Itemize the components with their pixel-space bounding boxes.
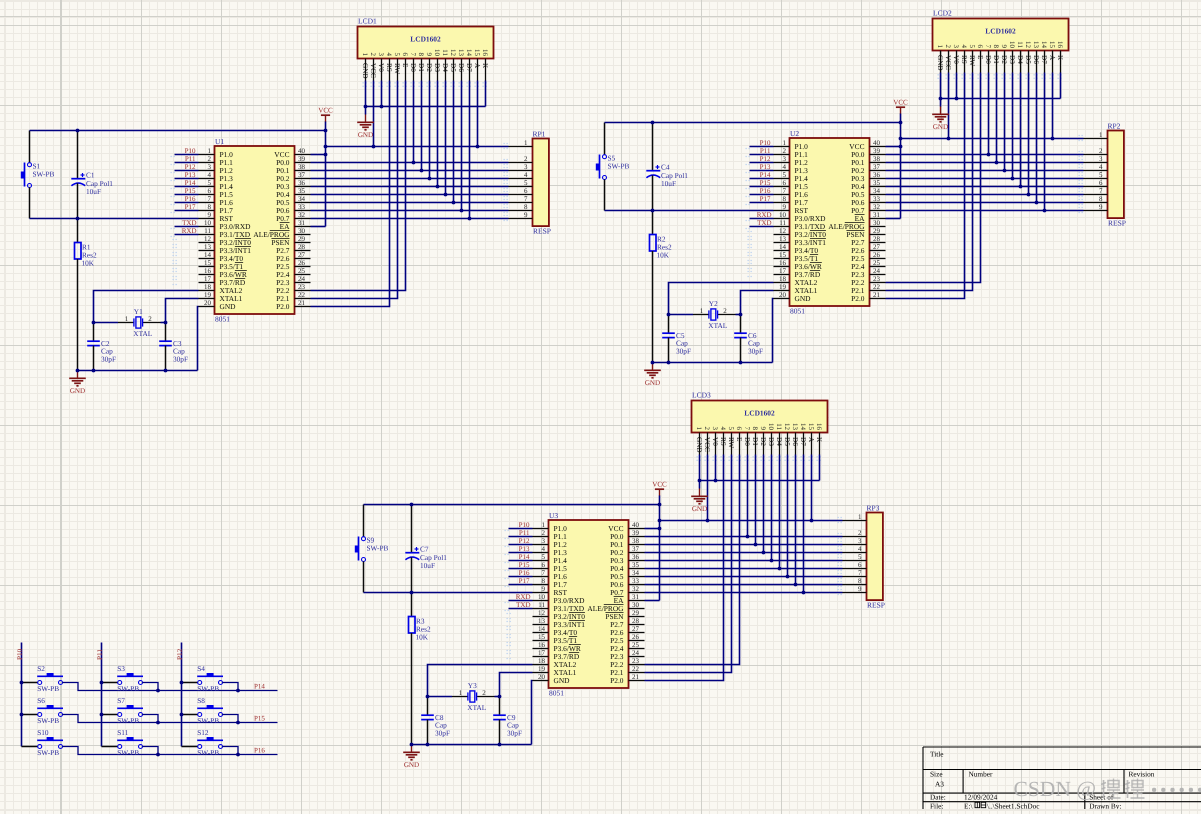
svg-text:12: 12 xyxy=(538,609,546,617)
svg-text:P13: P13 xyxy=(185,171,196,179)
svg-text:D4: D4 xyxy=(775,437,783,446)
wire net P17 xyxy=(750,202,774,204)
svg-text:18: 18 xyxy=(204,283,212,291)
svg-text:37: 37 xyxy=(632,545,640,553)
ground GND bottom xyxy=(403,745,420,769)
svg-text:15: 15 xyxy=(473,49,481,57)
svg-text:5: 5 xyxy=(968,45,976,49)
svg-text:14: 14 xyxy=(1040,41,1048,49)
wire net RXD xyxy=(509,608,533,610)
IC U1 8051 microcontroller xyxy=(199,137,311,323)
wire XTAL1 xyxy=(166,299,199,323)
svg-text:29: 29 xyxy=(873,227,881,235)
svg-text:8051: 8051 xyxy=(790,306,805,315)
svg-text:35: 35 xyxy=(873,179,881,187)
wire net P14 xyxy=(750,178,774,180)
svg-text:9: 9 xyxy=(208,211,212,219)
wire XTAL2 xyxy=(428,665,533,697)
wire LCD D0 xyxy=(413,81,415,163)
svg-text:2: 2 xyxy=(369,53,377,57)
svg-text:GND: GND xyxy=(70,387,85,395)
svg-text:25: 25 xyxy=(632,641,640,649)
net marker dots xyxy=(938,75,1064,79)
svg-text:10: 10 xyxy=(779,211,787,219)
svg-text:XTAL: XTAL xyxy=(467,703,486,712)
svg-text:V0: V0 xyxy=(711,437,719,446)
svg-text:30pF: 30pF xyxy=(173,354,188,363)
switch S4 SW-PB xyxy=(182,664,224,693)
svg-text:CSDN @: CSDN @ xyxy=(1014,777,1097,801)
svg-text:3: 3 xyxy=(524,163,528,171)
wire net RXD xyxy=(750,226,774,228)
svg-text:GND: GND xyxy=(645,379,660,387)
wire P0.5 bus xyxy=(645,576,843,578)
wire VCC vertical xyxy=(659,496,661,601)
wire LCD D3 xyxy=(771,455,773,561)
svg-text:11: 11 xyxy=(441,49,449,56)
svg-text:SW-PB: SW-PB xyxy=(37,716,59,725)
wire LCD D4 xyxy=(779,455,781,569)
svg-text:GND: GND xyxy=(220,302,237,311)
svg-text:20: 20 xyxy=(204,299,212,307)
svg-text:5: 5 xyxy=(208,179,212,187)
svg-text:9: 9 xyxy=(1000,45,1008,49)
svg-text:9: 9 xyxy=(524,211,528,219)
svg-text:19: 19 xyxy=(204,291,212,299)
svg-text:P10: P10 xyxy=(16,648,24,660)
wire LCD D4 xyxy=(1020,73,1022,187)
svg-text:D2: D2 xyxy=(1000,55,1008,64)
switch S5 SW-PB xyxy=(596,123,630,211)
wire net P11 xyxy=(750,154,774,156)
wire LCD D6 xyxy=(1036,73,1038,203)
svg-text:26: 26 xyxy=(632,633,640,641)
LCD module LCD2 LCD1602 xyxy=(933,9,1069,73)
svg-text:8: 8 xyxy=(542,577,546,585)
wire LCD pin3 V0 xyxy=(956,73,958,99)
svg-text:SW-PB: SW-PB xyxy=(37,748,59,757)
svg-text:38: 38 xyxy=(632,537,640,545)
resistor pack RP2 RESP xyxy=(1079,121,1126,227)
svg-text:13: 13 xyxy=(779,235,787,243)
wire switch output xyxy=(222,683,238,691)
svg-text:5: 5 xyxy=(524,179,528,187)
wire switch output xyxy=(62,715,277,723)
wire net P16 xyxy=(509,576,533,578)
svg-text:33: 33 xyxy=(298,203,306,211)
svg-text:P14: P14 xyxy=(185,179,196,187)
svg-text:8: 8 xyxy=(524,203,528,211)
svg-text:33: 33 xyxy=(873,195,881,203)
wire column P12 xyxy=(181,643,183,747)
svg-text:D4: D4 xyxy=(441,63,449,72)
svg-text:RP3: RP3 xyxy=(867,503,880,512)
svg-text:1: 1 xyxy=(208,147,212,155)
wire net TXD xyxy=(750,218,774,220)
wire LCD D7 xyxy=(469,81,471,219)
svg-text:37: 37 xyxy=(873,163,881,171)
wire net TXD xyxy=(175,226,199,228)
svg-text:13: 13 xyxy=(791,423,799,431)
svg-text:7: 7 xyxy=(858,569,862,577)
svg-text:35: 35 xyxy=(298,187,306,195)
svg-text:28: 28 xyxy=(298,243,306,251)
svg-text:V0: V0 xyxy=(952,55,960,64)
svg-text:S2: S2 xyxy=(37,664,45,673)
svg-text:24: 24 xyxy=(298,275,306,283)
svg-text:P16: P16 xyxy=(760,187,771,195)
wire pin40 VCC xyxy=(311,154,326,156)
wire crystal left xyxy=(669,314,694,316)
svg-text:1: 1 xyxy=(459,689,463,697)
svg-text:27: 27 xyxy=(298,251,306,259)
svg-text:28: 28 xyxy=(873,235,881,243)
svg-text:2: 2 xyxy=(944,45,952,49)
svg-text:RESP: RESP xyxy=(1108,219,1126,228)
wire crystal right xyxy=(161,322,166,324)
svg-text:S10: S10 xyxy=(37,728,49,737)
svg-text:26: 26 xyxy=(873,251,881,259)
resistor pack RP1 RESP xyxy=(504,129,551,235)
svg-text:15: 15 xyxy=(779,251,787,259)
wire net P11 xyxy=(175,162,199,164)
wire switch output xyxy=(62,683,277,691)
switch S1 SW-PB xyxy=(21,131,55,219)
svg-text:4: 4 xyxy=(1099,163,1103,171)
svg-text:RESP: RESP xyxy=(867,601,885,610)
svg-text:Revision: Revision xyxy=(1129,770,1155,779)
switch S10 SW-PB xyxy=(22,728,64,757)
junction dots xyxy=(410,479,814,747)
svg-text:V0: V0 xyxy=(377,63,385,72)
svg-text:15: 15 xyxy=(807,423,815,431)
wire LCD pin4 RS to P2.0 xyxy=(645,455,724,681)
crystal Y3 XTAL xyxy=(452,681,495,712)
svg-text:P14: P14 xyxy=(254,682,265,690)
svg-text:22: 22 xyxy=(632,665,640,673)
wire net P13 xyxy=(175,178,199,180)
wire net P13 xyxy=(750,170,774,172)
wire switch output xyxy=(62,747,277,755)
svg-text:30: 30 xyxy=(632,601,640,609)
svg-text:RESP: RESP xyxy=(533,227,551,236)
svg-text:5: 5 xyxy=(393,53,401,57)
ground GND under LCD xyxy=(691,481,708,513)
wire LCD D0 xyxy=(747,455,749,537)
svg-text:1: 1 xyxy=(125,315,129,323)
wire net P10 xyxy=(509,528,533,530)
svg-text:1: 1 xyxy=(542,521,546,529)
svg-text:19: 19 xyxy=(538,665,546,673)
wire LCD D5 xyxy=(453,81,455,203)
crystal Y2 XTAL xyxy=(693,299,736,330)
svg-text:K: K xyxy=(1056,55,1064,61)
wire LCD pin16 K xyxy=(485,81,487,107)
svg-text:D1: D1 xyxy=(751,437,759,446)
wire LCD pin5 RW to P2.1 xyxy=(311,81,398,299)
wire ground bus bottom xyxy=(412,744,532,746)
wire LCD pin6 E to P2.2 xyxy=(311,81,406,291)
wire net P11 xyxy=(509,536,533,538)
svg-text:14: 14 xyxy=(465,49,473,57)
wire EA to VCC xyxy=(311,226,326,228)
wire ground bus bottom xyxy=(78,370,198,372)
svg-text:GND: GND xyxy=(692,505,707,513)
svg-text:RW: RW xyxy=(393,63,401,74)
svg-text:D5: D5 xyxy=(783,437,791,446)
wire crystal left xyxy=(428,696,453,698)
svg-text:40: 40 xyxy=(632,521,640,529)
svg-text:6: 6 xyxy=(783,179,787,187)
wire XTAL2 xyxy=(94,291,199,323)
svg-text:18: 18 xyxy=(779,275,787,283)
svg-text:SW-PB: SW-PB xyxy=(33,170,55,179)
wire crystal left xyxy=(94,322,119,324)
svg-text:1: 1 xyxy=(524,139,528,147)
svg-text:8: 8 xyxy=(992,45,1000,49)
net marker dots xyxy=(363,83,489,87)
svg-text:31: 31 xyxy=(873,211,881,219)
wire LCD pin1 GND xyxy=(699,455,701,481)
svg-text:RW: RW xyxy=(727,437,735,448)
svg-text:RP1: RP1 xyxy=(533,129,546,138)
svg-text:D1: D1 xyxy=(417,63,425,72)
svg-text:TXD: TXD xyxy=(516,601,530,609)
svg-text:GND: GND xyxy=(936,55,944,71)
svg-text:P12: P12 xyxy=(176,648,184,660)
svg-text:10uF: 10uF xyxy=(86,187,101,196)
crystal Y1 XTAL xyxy=(118,307,161,338)
svg-text:SW-PB: SW-PB xyxy=(197,748,219,757)
svg-text:E: E xyxy=(735,437,743,442)
svg-text:A: A xyxy=(473,63,481,69)
svg-text:38: 38 xyxy=(873,155,881,163)
svg-text:30pF: 30pF xyxy=(101,354,116,363)
wire P0.0 bus xyxy=(645,536,843,538)
wire net TXD xyxy=(509,600,533,602)
svg-text:23: 23 xyxy=(298,283,306,291)
svg-text:2: 2 xyxy=(542,529,546,537)
svg-text:5: 5 xyxy=(727,427,735,431)
svg-text:SW-PB: SW-PB xyxy=(608,162,630,171)
svg-text:15: 15 xyxy=(1048,41,1056,49)
svg-text:P2.0: P2.0 xyxy=(610,676,624,685)
LCD module LCD1 LCD1602 xyxy=(358,17,494,81)
svg-text:RXD: RXD xyxy=(757,211,772,219)
svg-text:5: 5 xyxy=(1099,171,1103,179)
svg-text:1: 1 xyxy=(783,139,787,147)
svg-text:P13: P13 xyxy=(519,545,530,553)
wire net P15 xyxy=(509,568,533,570)
svg-text:D0: D0 xyxy=(984,55,992,64)
wire LCD ground bus xyxy=(366,106,486,108)
wire LCD pin4 RS to P2.0 xyxy=(886,73,965,299)
svg-text:10K: 10K xyxy=(416,632,429,641)
svg-text:9: 9 xyxy=(759,427,767,431)
svg-text:7: 7 xyxy=(783,187,787,195)
svg-text:XTAL: XTAL xyxy=(133,329,152,338)
svg-text:VCC: VCC xyxy=(944,55,952,70)
svg-text:D6: D6 xyxy=(791,437,799,446)
wire P0.0 bus xyxy=(886,154,1084,156)
capacitor C3 Cap 30pF xyxy=(159,323,188,371)
svg-text:P17: P17 xyxy=(185,203,196,211)
svg-text:40: 40 xyxy=(298,147,306,155)
svg-text:LCD1602: LCD1602 xyxy=(985,26,1016,35)
svg-text:D3: D3 xyxy=(433,63,441,72)
svg-text:RXD: RXD xyxy=(182,227,197,235)
svg-text:P16: P16 xyxy=(185,195,196,203)
svg-text:12: 12 xyxy=(449,49,457,57)
wire P0.2 bus xyxy=(645,552,843,554)
wire net P17 xyxy=(509,584,533,586)
wire P0.6 bus xyxy=(645,584,843,586)
svg-text:P10: P10 xyxy=(185,147,196,155)
svg-text:6: 6 xyxy=(524,187,528,195)
wire LCD pin15 A xyxy=(477,81,479,147)
wire LCD D1 xyxy=(996,73,998,163)
svg-text:P17: P17 xyxy=(519,577,530,585)
wire LCD D2 xyxy=(429,81,431,179)
svg-text:13: 13 xyxy=(538,617,546,625)
svg-text:9: 9 xyxy=(542,585,546,593)
svg-text:P10: P10 xyxy=(519,521,530,529)
svg-text:LCD1: LCD1 xyxy=(358,17,377,26)
wire LCD pin2 VCC xyxy=(373,81,375,147)
wire net P10 xyxy=(175,154,199,156)
svg-text:6: 6 xyxy=(208,187,212,195)
wire XTAL1 xyxy=(741,291,774,315)
svg-text:12: 12 xyxy=(1024,41,1032,49)
svg-text:S7: S7 xyxy=(117,696,125,705)
wire LCD D1 xyxy=(755,455,757,545)
svg-text:D5: D5 xyxy=(449,63,457,72)
wire pin40 VCC xyxy=(886,146,901,148)
power VCC xyxy=(893,99,908,115)
svg-text:S6: S6 xyxy=(37,696,45,705)
ground GND under LCD xyxy=(932,99,949,131)
svg-text:7: 7 xyxy=(409,53,417,57)
svg-text:K: K xyxy=(481,63,489,69)
wire VCC rail xyxy=(326,146,509,148)
svg-text:GND: GND xyxy=(404,761,419,769)
svg-text:27: 27 xyxy=(873,243,881,251)
net marker dots xyxy=(505,531,513,659)
wire ground bus bottom xyxy=(653,362,773,364)
svg-text:32: 32 xyxy=(298,211,306,219)
wire P0.6 bus xyxy=(311,210,509,212)
svg-text:14: 14 xyxy=(799,423,807,431)
svg-text:6: 6 xyxy=(401,53,409,57)
svg-text:D2: D2 xyxy=(425,63,433,72)
svg-text:31: 31 xyxy=(632,593,640,601)
svg-text:Y2: Y2 xyxy=(709,299,718,308)
svg-text:RS: RS xyxy=(719,437,727,446)
svg-text:2: 2 xyxy=(723,307,727,315)
wire P0.2 bus xyxy=(886,170,1084,172)
wire VCC rail xyxy=(660,520,843,522)
wire LCD ground bus xyxy=(700,480,820,482)
svg-text:11: 11 xyxy=(204,227,211,235)
wire P0.1 bus xyxy=(886,162,1084,164)
svg-text:S3: S3 xyxy=(117,664,125,673)
svg-text:10: 10 xyxy=(1008,41,1016,49)
wire reset top bus xyxy=(30,130,326,132)
svg-text:3: 3 xyxy=(858,537,862,545)
svg-text:A: A xyxy=(1048,55,1056,61)
svg-text:30: 30 xyxy=(298,227,306,235)
svg-text:Drawn By:: Drawn By: xyxy=(1089,801,1121,809)
svg-text:14: 14 xyxy=(779,243,787,251)
capacitor C2 Cap 30pF xyxy=(87,323,116,371)
svg-text:9: 9 xyxy=(1099,203,1103,211)
wire VCC vertical xyxy=(325,122,327,227)
svg-text:P14: P14 xyxy=(760,171,771,179)
wire LCD pin6 E to P2.2 xyxy=(886,73,981,283)
svg-text:3: 3 xyxy=(711,427,719,431)
svg-text:P11: P11 xyxy=(760,147,771,155)
capacitor C6 Cap 30pF xyxy=(734,315,763,363)
svg-text:10: 10 xyxy=(538,593,546,601)
svg-text:2: 2 xyxy=(208,155,212,163)
svg-text:2: 2 xyxy=(783,147,787,155)
svg-text:14: 14 xyxy=(538,625,546,633)
wire RST bus xyxy=(605,210,774,212)
svg-text:LCD2: LCD2 xyxy=(933,9,952,18)
wire net P13 xyxy=(509,552,533,554)
svg-text:SW-PB: SW-PB xyxy=(197,716,219,725)
svg-text:E:\: E:\ xyxy=(964,801,973,809)
wire switch output xyxy=(222,747,238,755)
wire switch output xyxy=(142,683,158,691)
svg-text:16: 16 xyxy=(481,49,489,57)
IC U3 8051 microcontroller xyxy=(533,511,645,697)
svg-text:1: 1 xyxy=(700,307,704,315)
wire switch output xyxy=(222,715,238,723)
wire LCD pin3 V0 xyxy=(715,455,717,481)
svg-text:\..\Sheet1.SchDoc: \..\Sheet1.SchDoc xyxy=(987,801,1040,809)
svg-text:4: 4 xyxy=(858,545,862,553)
switch S11 SW-PB xyxy=(102,728,144,757)
svg-text:TXD: TXD xyxy=(182,219,196,227)
svg-text:RP2: RP2 xyxy=(1108,121,1121,130)
svg-text:P12: P12 xyxy=(519,537,530,545)
wire LCD D4 xyxy=(445,81,447,195)
svg-text:24: 24 xyxy=(873,267,881,275)
svg-text:7: 7 xyxy=(208,195,212,203)
svg-text:P12: P12 xyxy=(760,155,771,163)
svg-text:RS: RS xyxy=(385,63,393,72)
svg-text:S12: S12 xyxy=(197,728,209,737)
svg-text:2: 2 xyxy=(1099,147,1103,155)
wire P0.4 bus xyxy=(645,568,843,570)
wire XTAL2 xyxy=(669,283,774,315)
wire LCD pin2 VCC xyxy=(948,73,950,139)
svg-text:S11: S11 xyxy=(117,728,128,737)
wire LCD D1 xyxy=(421,81,423,171)
wire RST bus xyxy=(30,218,199,220)
svg-text:36: 36 xyxy=(632,553,640,561)
wire net RXD xyxy=(175,234,199,236)
junction dots xyxy=(20,681,240,757)
wire P0.4 bus xyxy=(886,186,1084,188)
wire VCC vertical xyxy=(900,114,902,219)
svg-text:6: 6 xyxy=(976,45,984,49)
wire P0.6 bus xyxy=(886,202,1084,204)
wire LCD pin16 K xyxy=(819,455,821,481)
ground GND bottom xyxy=(69,371,86,395)
svg-text:Size: Size xyxy=(930,770,943,779)
